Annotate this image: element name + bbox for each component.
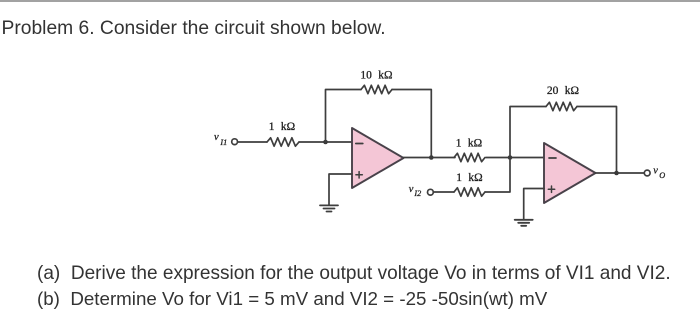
resistor R5 20 kOhm (feedback U2) [546,102,577,110]
wire U2 output [596,172,645,174]
node C junction dot (inverting input U2) [508,155,513,160]
svg-text:I1: I1 [219,138,227,147]
svg-text:10 kΩ: 10 kΩ [360,69,392,81]
resistor R1 1 kOhm (input stage 1) [267,138,299,146]
wire feedback loop 2 right vertical [577,107,617,174]
wire U1 non-inverting input to ground [329,174,352,205]
svg-text:1 kΩ: 1 kΩ [269,121,295,133]
resistor R2 10 kOhm (feedback U1) [361,85,392,93]
wire R1 to inverting input U1 [299,141,352,143]
wire feedback loop 1 left vertical [326,90,362,143]
node vI1 input terminal [232,139,238,145]
wire feedback loop 2 left vertical [510,107,546,158]
U2 plus sign [548,188,554,190]
resistor R3 1 kOhm (between stages) [454,153,485,161]
node vI2 input terminal [428,189,434,195]
svg-text:20 kΩ: 20 kΩ [547,85,579,97]
wire R3 to inverting input U2 [486,157,544,159]
node D junction dot (U2 output / feedback) [614,171,619,176]
op-amp U2 [544,143,596,203]
svg-text:O: O [659,171,665,180]
wire feedback loop 1 right vertical [392,90,431,158]
wire vI2 terminal to R4 [434,191,455,193]
op-amp U1 [352,128,404,188]
svg-text:v: v [653,165,658,176]
ground G1 [320,204,338,206]
ground G2 [515,219,533,221]
node vO output terminal [644,170,650,176]
U1 minus sign [356,143,363,145]
wire U1 output [404,157,456,159]
node B junction dot (U1 output / feedback) [429,155,434,160]
wire vI1 terminal to R1 [238,141,267,143]
svg-text:v: v [409,184,414,195]
svg-text:I2: I2 [413,189,421,198]
svg-text:v: v [214,132,219,143]
U1 plus sign [356,174,362,176]
svg-text:1 kΩ: 1 kΩ [456,172,482,184]
resistor R4 1 kOhm (vI2 input) [454,188,485,196]
wire U2 non-inverting input to ground [524,189,544,220]
U2 minus sign [549,157,556,159]
wire R4 up to node C [485,158,510,193]
svg-text:1 kΩ: 1 kΩ [456,138,482,150]
node A junction dot (inverting input U1) [323,140,328,145]
